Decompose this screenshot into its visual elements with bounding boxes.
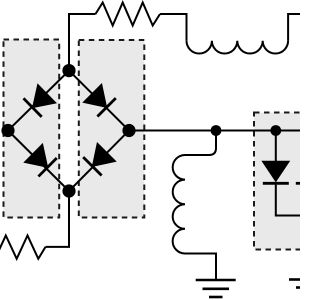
dashed block box middle (bridge right half): [79, 40, 145, 218]
resistor R2 (clipped at left edge): [0, 236, 46, 259]
diode D2 (top node to right node): [83, 84, 116, 117]
node top (bridge AC input): [62, 64, 75, 77]
diode D4 (right node to bottom node): [83, 143, 116, 176]
junction node L2 tap: [211, 125, 222, 136]
wire from R1 to L1: [160, 14, 187, 41]
node left (bridge output minus): [1, 124, 14, 137]
dashed block box right (diode block, clipped at image edge): [254, 113, 314, 250]
diode D6 cathode bar fragment (clipped at right edge): [296, 182, 300, 185]
wire from D5 cathode down and right to edge: [276, 185, 300, 216]
wire from L2 to ground: [185, 254, 216, 281]
wire from L1 to right edge: [288, 14, 300, 41]
junction node D5 tap: [270, 125, 281, 136]
wire bridge edge top-left: [8, 71, 69, 131]
wire from rail junction down to L2: [185, 131, 216, 156]
wire bridge edge bottom-left: [8, 131, 69, 192]
diode D1 (top node to left node): [24, 84, 56, 117]
dashed block box left (bridge left half): [4, 40, 60, 218]
wire bridge edge bottom-right: [69, 131, 129, 192]
node right (bridge output plus): [122, 124, 135, 137]
inductor L1: [187, 41, 289, 54]
wire bridge edge top-right: [69, 71, 129, 131]
diode D5 (right box, cathode down): [262, 131, 289, 184]
node bottom (bridge AC input): [62, 184, 75, 197]
wire from top node up and right to R1: [69, 14, 96, 71]
inductor L2: [173, 155, 185, 254]
wire middle rail right node to right edge: [129, 130, 300, 132]
ground symbol G2 (partial, bottom right corner): [289, 280, 300, 288]
ground symbol G1: [196, 280, 236, 297]
resistor R1: [96, 3, 161, 26]
diode D3 (left node to bottom node): [24, 144, 57, 177]
wire from bottom node down and left to R2: [46, 191, 70, 247]
